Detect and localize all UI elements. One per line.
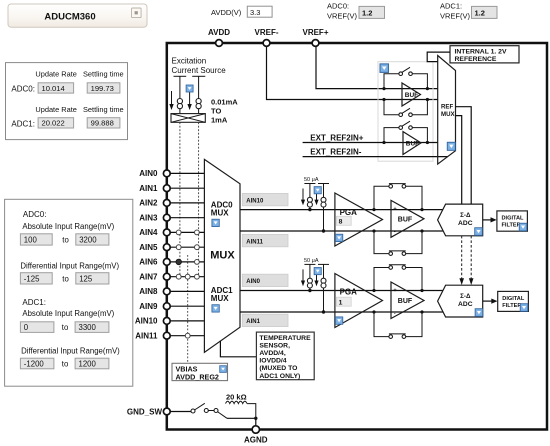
sigma-delta adc1 bbox=[438, 285, 483, 317]
svg-text:(MUXED TO: (MUXED TO bbox=[259, 365, 297, 372]
svg-text:Absolute Input Range(mV): Absolute Input Range(mV) bbox=[22, 222, 114, 231]
VREF- pin bbox=[263, 40, 270, 47]
input ranges panel bbox=[5, 199, 133, 386]
svg-text:ADC1:: ADC1: bbox=[11, 119, 35, 128]
svg-text:FILTER: FILTER bbox=[502, 223, 521, 229]
svg-text:AIN11: AIN11 bbox=[135, 332, 158, 341]
svg-text:ADC0:: ADC0: bbox=[11, 84, 35, 93]
svg-text:-125: -125 bbox=[24, 274, 40, 283]
svg-text:0.01mA: 0.01mA bbox=[211, 98, 238, 107]
svg-text:to: to bbox=[62, 359, 69, 368]
ch1 chop bypass top bbox=[372, 265, 423, 292]
reference mux config icon bbox=[447, 142, 455, 150]
svg-text:to: to bbox=[62, 323, 69, 332]
svg-text:AGND: AGND bbox=[244, 436, 268, 445]
svg-text:Differential Input Range(mV): Differential Input Range(mV) bbox=[20, 262, 119, 271]
svg-text:BUF: BUF bbox=[398, 217, 413, 224]
ext_ref2in+ wire bbox=[303, 142, 438, 144]
svg-text:AIN1: AIN1 bbox=[246, 319, 260, 325]
svg-text:ADC: ADC bbox=[458, 220, 473, 227]
adc0 mux positive select dropdown AIN10 bbox=[242, 193, 288, 205]
ch0 burnout config icon bbox=[314, 187, 321, 194]
svg-text:AVDD_REG2: AVDD_REG2 bbox=[176, 372, 219, 381]
ch0 burnout arrow 2 bbox=[314, 189, 318, 206]
ch1 burnout source negative bbox=[318, 264, 329, 312]
adc1 mux positive select dropdown AIN0 bbox=[242, 274, 288, 286]
excitation crossbar switch bbox=[171, 114, 205, 123]
reference buffers group box bbox=[378, 62, 433, 162]
part selector button ADUCM360 bbox=[8, 4, 147, 27]
svg-text:99.888: 99.888 bbox=[91, 119, 114, 128]
excitation source 2 bbox=[192, 76, 205, 113]
selected node AIN6 bbox=[176, 259, 182, 265]
ch1 burnout source positive bbox=[304, 264, 315, 290]
buf0 amplifier bbox=[391, 200, 424, 237]
svg-text:AIN0: AIN0 bbox=[139, 169, 158, 178]
excitation output dashed column 1 bbox=[179, 122, 181, 276]
reference line to adc0 outer bbox=[456, 107, 472, 204]
svg-text:AIN2: AIN2 bbox=[139, 199, 158, 208]
digital filter 0 bbox=[497, 211, 528, 231]
ch0 negative wire bbox=[240, 230, 443, 232]
svg-text:to: to bbox=[62, 274, 69, 283]
svg-text:Σ-Δ: Σ-Δ bbox=[460, 293, 471, 300]
agnd pin bbox=[252, 426, 259, 433]
adc0 mux config icon bbox=[212, 219, 220, 227]
analog input MUX bbox=[204, 159, 240, 352]
digital filter 1 bbox=[498, 291, 529, 311]
svg-text:AIN11: AIN11 bbox=[246, 239, 263, 245]
svg-text:ADC1:: ADC1: bbox=[22, 298, 46, 307]
VREF+ pin bbox=[312, 40, 319, 47]
svg-text:AIN5: AIN5 bbox=[139, 243, 158, 252]
svg-text:Settling time: Settling time bbox=[83, 70, 124, 79]
adc1 mux config icon bbox=[212, 305, 220, 313]
mux channel nodes bbox=[176, 230, 199, 338]
svg-text:100: 100 bbox=[24, 236, 38, 245]
svg-text:Update Rate: Update Rate bbox=[35, 70, 77, 79]
svg-text:MUX: MUX bbox=[211, 294, 229, 303]
excitation range label 0.01mA TO 1mA bbox=[211, 98, 238, 125]
ch0 chop bypass top bbox=[372, 184, 423, 212]
resistor 20k bbox=[226, 401, 256, 418]
svg-text:DIGITAL: DIGITAL bbox=[502, 296, 525, 302]
svg-text:AVDD: AVDD bbox=[208, 28, 230, 37]
svg-text:IOVDD/4: IOVDD/4 bbox=[259, 358, 286, 365]
chip boundary box bbox=[167, 43, 547, 430]
ext_ref2 buffer bypass switch bbox=[382, 121, 429, 144]
svg-text:AIN8: AIN8 bbox=[139, 287, 158, 296]
svg-text:PGA: PGA bbox=[340, 288, 358, 297]
svg-text:1.2: 1.2 bbox=[362, 9, 372, 18]
svg-text:VREF+: VREF+ bbox=[302, 28, 328, 37]
reference group config icon bbox=[380, 64, 389, 73]
svg-text:AIN10: AIN10 bbox=[135, 317, 158, 326]
vbias config icon bbox=[220, 366, 227, 373]
svg-text:ADUCM360: ADUCM360 bbox=[44, 12, 95, 23]
ch1 burnout arrow 2 bbox=[314, 269, 318, 286]
reference mux bbox=[438, 56, 456, 165]
svg-text:MUX: MUX bbox=[441, 111, 455, 118]
gnd switch network bbox=[171, 403, 258, 426]
adc0 output arrow bbox=[483, 217, 497, 222]
gnd_sw pin bbox=[163, 408, 170, 415]
svg-text:FILTER: FILTER bbox=[502, 303, 521, 309]
ext_ref2in- wire bbox=[303, 156, 448, 158]
svg-text:TEMPERATURE: TEMPERATURE bbox=[259, 335, 311, 342]
svg-text:EXT_REF2IN+: EXT_REF2IN+ bbox=[310, 133, 363, 142]
reference dashed line to adc1 outer bbox=[469, 236, 474, 285]
vref- buffer bypass switch bbox=[382, 98, 429, 117]
vref+ buffer bypass switch bbox=[382, 67, 429, 90]
temperature sensor wire bbox=[220, 341, 256, 357]
svg-text:50 μA: 50 μA bbox=[304, 177, 319, 183]
excitation source 1 bbox=[174, 76, 187, 113]
adc0 config icon bbox=[475, 228, 483, 236]
ch0 burnout arrow 1 bbox=[301, 189, 305, 206]
svg-text:GND_SW: GND_SW bbox=[127, 408, 163, 417]
svg-text:PGA: PGA bbox=[340, 208, 358, 217]
svg-text:+: + bbox=[393, 288, 397, 294]
svg-text:Update Rate: Update Rate bbox=[35, 105, 77, 114]
AIN pin labels bbox=[135, 169, 158, 340]
svg-text:Settling time: Settling time bbox=[83, 105, 124, 114]
adc1 output arrow bbox=[483, 299, 498, 304]
temperature sensor box bbox=[256, 332, 314, 380]
svg-text:1.2: 1.2 bbox=[475, 9, 485, 18]
ext_ref2 buffer amplifier bbox=[403, 132, 421, 155]
svg-text:AIN4: AIN4 bbox=[139, 228, 158, 237]
ch1 positive wire bbox=[240, 290, 443, 292]
ch1 chop bypass bottom bbox=[372, 310, 423, 338]
AVDD pin bbox=[216, 40, 223, 47]
ch0 chop bypass bottom bbox=[372, 229, 423, 255]
svg-text:0: 0 bbox=[24, 323, 29, 332]
svg-text:125: 125 bbox=[79, 274, 93, 283]
svg-text:SENSOR,: SENSOR, bbox=[259, 342, 290, 349]
svg-text:VREF(V): VREF(V) bbox=[327, 12, 358, 21]
AIN pins bbox=[163, 170, 170, 339]
svg-text:AIN6: AIN6 bbox=[139, 258, 158, 267]
svg-text:-: - bbox=[394, 230, 396, 236]
wire VREF+ to ref mux bbox=[316, 46, 438, 89]
svg-text:AIN0: AIN0 bbox=[246, 279, 260, 285]
svg-text:3200: 3200 bbox=[79, 236, 97, 245]
wire VREF- to ref mux bbox=[267, 46, 438, 100]
ch0 burnout source positive bbox=[304, 184, 315, 210]
update rate / settling time panel bbox=[6, 63, 128, 140]
vbias dashed column bbox=[187, 255, 189, 363]
adc1 mux negative select dropdown AIN1 bbox=[242, 314, 288, 326]
sigma-delta adc0 bbox=[438, 204, 483, 236]
svg-text:Current Source: Current Source bbox=[172, 66, 227, 75]
svg-text:Σ-Δ: Σ-Δ bbox=[460, 212, 471, 219]
svg-text:BUF: BUF bbox=[405, 92, 418, 99]
svg-text:ADC0:: ADC0: bbox=[23, 210, 47, 219]
ch1 burnout junction dots bbox=[308, 289, 311, 292]
svg-text:EXT_REF2IN-: EXT_REF2IN- bbox=[310, 147, 361, 156]
reference dashed line to adc1 inner bbox=[459, 236, 464, 285]
excitation arrow 1 bbox=[169, 91, 173, 110]
adc1 config icon bbox=[475, 309, 483, 317]
ch1 burnout arrow 1 bbox=[301, 269, 305, 286]
excitation output dashed column 2 bbox=[198, 122, 200, 276]
svg-text:ADC0:: ADC0: bbox=[327, 2, 349, 11]
svg-text:AIN1: AIN1 bbox=[139, 184, 158, 193]
svg-text:AIN10: AIN10 bbox=[246, 198, 264, 204]
svg-text:ADC1 ONLY): ADC1 ONLY) bbox=[259, 373, 300, 380]
ch1 negative wire bbox=[240, 311, 443, 313]
svg-text:-1200: -1200 bbox=[24, 359, 45, 368]
svg-text:AIN3: AIN3 bbox=[139, 214, 158, 223]
reference line to adc0 inner bbox=[456, 116, 462, 205]
ADC0 VREF(V) input bbox=[327, 2, 385, 21]
vref buffer amplifier bbox=[402, 83, 421, 106]
svg-text:MUX: MUX bbox=[210, 250, 235, 262]
internal reference box bbox=[450, 46, 519, 63]
ch0 positive wire bbox=[240, 209, 443, 211]
svg-text:3300: 3300 bbox=[79, 323, 97, 332]
excitation arrow 2 bbox=[187, 91, 191, 110]
svg-text:TO: TO bbox=[211, 107, 221, 116]
svg-text:199.73: 199.73 bbox=[91, 84, 114, 93]
svg-text:Absolute Input Range(mV): Absolute Input Range(mV) bbox=[22, 309, 114, 318]
pga0 config icon bbox=[335, 234, 343, 242]
svg-text:+: + bbox=[393, 207, 397, 213]
svg-text:AVDD(V): AVDD(V) bbox=[211, 8, 242, 17]
svg-text:REFERENCE: REFERENCE bbox=[455, 56, 497, 63]
svg-text:to: to bbox=[62, 236, 69, 245]
internal reference wire bbox=[427, 52, 450, 62]
buf1 amplifier bbox=[391, 282, 424, 319]
svg-text:1200: 1200 bbox=[79, 359, 97, 368]
svg-text:Differential Input Range(mV): Differential Input Range(mV) bbox=[21, 346, 120, 355]
svg-text:ADC: ADC bbox=[458, 301, 473, 308]
svg-text:50 μA: 50 μA bbox=[304, 258, 319, 264]
AVDD(V) input bbox=[211, 6, 272, 17]
svg-text:AVDD/4,: AVDD/4, bbox=[259, 350, 285, 357]
ch0 burnout junction dots bbox=[308, 208, 311, 211]
pga1 config icon bbox=[335, 317, 343, 325]
svg-text:10.014: 10.014 bbox=[42, 84, 65, 93]
svg-text:1mA: 1mA bbox=[211, 116, 228, 125]
AIN input wires bbox=[168, 173, 204, 335]
svg-text:VREF(V): VREF(V) bbox=[440, 12, 471, 21]
svg-text:REF: REF bbox=[441, 104, 453, 111]
svg-text:BUF: BUF bbox=[406, 140, 419, 147]
svg-text:MUX: MUX bbox=[211, 209, 229, 218]
svg-text:ADC1:: ADC1: bbox=[440, 2, 462, 11]
ch1 burnout config icon bbox=[314, 267, 321, 274]
adc0 mux negative select dropdown AIN11 bbox=[242, 234, 288, 246]
svg-text:AIN9: AIN9 bbox=[139, 302, 158, 311]
svg-text:VREF-: VREF- bbox=[255, 28, 279, 37]
svg-text:20 kΩ: 20 kΩ bbox=[226, 392, 247, 401]
ADC1 VREF(V) input bbox=[440, 2, 497, 21]
svg-text:INTERNAL 1. 2V: INTERNAL 1. 2V bbox=[455, 49, 507, 56]
digital filter 1 icon bbox=[520, 304, 528, 312]
svg-text:8: 8 bbox=[339, 219, 343, 226]
pga1 amplifier bbox=[335, 274, 383, 328]
svg-text:1: 1 bbox=[339, 300, 343, 307]
digital filter 0 icon bbox=[519, 223, 527, 231]
svg-text:20.022: 20.022 bbox=[42, 119, 65, 128]
svg-text:BUF: BUF bbox=[398, 298, 413, 305]
svg-text:DIGITAL: DIGITAL bbox=[502, 216, 525, 222]
svg-text:3.3: 3.3 bbox=[250, 8, 260, 17]
vbias box bbox=[172, 363, 228, 381]
svg-text:Excitation: Excitation bbox=[172, 57, 207, 66]
ch0 burnout source negative bbox=[318, 184, 329, 232]
excitation config icon bbox=[186, 85, 193, 92]
svg-text:AIN7: AIN7 bbox=[139, 273, 158, 282]
svg-text:-: - bbox=[394, 311, 396, 317]
pga0 amplifier bbox=[335, 193, 383, 246]
